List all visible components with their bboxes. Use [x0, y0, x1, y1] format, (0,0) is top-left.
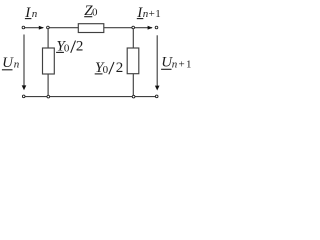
svg-text:0: 0: [92, 7, 98, 19]
voltage arrow Un: [23, 35, 25, 87]
current arrow In: [39, 26, 44, 30]
label Un+1: [161, 55, 191, 71]
label Y0/2 left: [56, 38, 83, 54]
wire Z0 to junctionR: [104, 27, 132, 29]
svg-text:U: U: [2, 55, 14, 71]
wire right shunt top: [132, 29, 134, 48]
wire right shunt bottom: [132, 74, 134, 96]
svg-text:0: 0: [103, 64, 109, 76]
node junction top-left: [46, 26, 50, 30]
node junction bottom-left: [47, 95, 51, 99]
label In+1: [136, 5, 161, 21]
node junction bottom-right: [132, 95, 136, 99]
svg-text:0: 0: [64, 42, 70, 54]
svg-text:1: 1: [186, 58, 192, 70]
svg-text:2: 2: [76, 38, 84, 54]
current arrow In+1: [148, 26, 153, 30]
node terminal top-right: [155, 26, 159, 30]
wire junctionL to Z0: [49, 27, 78, 29]
node terminal bottom-left: [22, 95, 26, 99]
node junction top-right: [131, 26, 135, 30]
svg-text:+: +: [149, 8, 155, 20]
svg-text:n: n: [14, 59, 20, 71]
label In: [24, 5, 38, 21]
svg-text:2: 2: [116, 60, 124, 76]
voltage arrow Un+1: [156, 35, 158, 86]
shunt admittance Y0/2 left: [43, 48, 55, 74]
wire left shunt top: [47, 29, 49, 48]
shunt admittance Y0/2 right: [127, 48, 139, 74]
svg-text:+: +: [179, 58, 185, 70]
wire top-left segment: [25, 27, 43, 29]
wire left shunt bottom: [47, 74, 49, 95]
svg-text:n: n: [172, 58, 178, 70]
svg-text:1: 1: [155, 8, 161, 20]
wire bottom rail: [25, 96, 155, 98]
label Un: [2, 55, 20, 71]
node terminal top-left: [22, 26, 26, 30]
node terminal bottom-right: [155, 95, 159, 99]
wire junctionR to right terminal: [135, 27, 152, 29]
series impedance Z0: [78, 24, 104, 33]
label Z0: [84, 3, 98, 19]
svg-text:n: n: [32, 8, 38, 20]
label Y0/2 right: [95, 60, 124, 76]
